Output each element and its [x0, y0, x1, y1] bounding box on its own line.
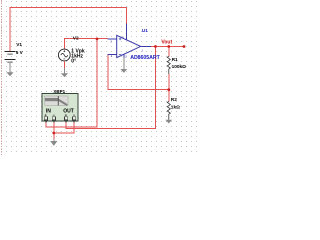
battery V1 [4, 52, 15, 63]
screen [45, 96, 68, 106]
U1 label [142, 28, 148, 34]
wire IN+ riser [46, 39, 97, 127]
svg-text:Vout: Vout [161, 40, 172, 46]
wire IN- to ground [53, 122, 55, 139]
R2 label [171, 97, 180, 110]
ground under XBP1 [50, 139, 57, 146]
net label Vout [161, 40, 172, 46]
wire top rail V1 to opamp V+ [10, 8, 127, 52]
svg-text:100kΩ: 100kΩ [172, 64, 187, 70]
node junction dot output-feedback riser [154, 45, 157, 48]
pin V+ [126, 24, 128, 40]
svg-text:U1: U1 [142, 28, 148, 34]
ground under V2 [61, 61, 68, 77]
XBP1 label [53, 89, 65, 94]
svg-text:R1: R1 [172, 57, 178, 63]
U1 part label AD8605ART [130, 55, 160, 61]
resistor R1 [167, 56, 170, 74]
pin number 2 [125, 54, 127, 58]
pin out [141, 46, 152, 48]
node junction dot wire end Vout [183, 45, 186, 48]
sheet border (left dashed) [1, 0, 3, 155]
wire R1 bottom lead [168, 74, 170, 90]
node junction dot R1 tap [167, 45, 170, 48]
node junction dot ground join [52, 132, 55, 135]
pin +in [108, 38, 117, 40]
svg-text:R2: R2 [171, 97, 177, 103]
svg-text:5 V: 5 V [16, 50, 24, 56]
V2 values [71, 49, 85, 65]
node junction dot +input [96, 38, 99, 41]
plus marker [119, 38, 122, 40]
pin number 5 [122, 36, 124, 40]
wire OUT- to IN- ground [54, 122, 74, 133]
svg-text:1kΩ: 1kΩ [171, 104, 180, 110]
pin V- [123, 55, 125, 58]
terminal polarity marks [45, 114, 75, 116]
svg-text:OUT: OUT [63, 108, 74, 114]
bode plotter XBP1 [42, 94, 78, 123]
V2 label [73, 35, 79, 41]
IN OUT labels [46, 108, 74, 114]
ground under V1 [6, 63, 13, 76]
svg-text:AD8605ART: AD8605ART [130, 55, 160, 61]
pin -in [108, 54, 117, 56]
ground under op-amp [120, 58, 127, 73]
svg-text:XBP1: XBP1 [53, 89, 65, 94]
ac source V2 [58, 49, 70, 61]
pin number 1 [141, 48, 143, 52]
svg-text:V1: V1 [16, 42, 22, 48]
pin stubs [46, 121, 74, 123]
pin number 4 [111, 54, 113, 58]
R1 label [172, 57, 187, 70]
svg-text:V2: V2 [73, 35, 79, 41]
wire OUT+ to output [66, 47, 156, 129]
node junction dot R1-R2 feedback [167, 88, 170, 91]
svg-text:IN: IN [46, 108, 51, 114]
wire output [151, 46, 184, 48]
wire V2 to opamp +input [65, 39, 108, 50]
pin number 3 [110, 39, 112, 43]
wire R2 top lead [168, 90, 170, 102]
V1 label [16, 42, 24, 56]
svg-text:0°: 0° [71, 59, 76, 65]
terminals [44, 117, 75, 120]
wire R1 top lead [168, 47, 170, 57]
ground under R2 [165, 120, 172, 124]
resistor R2 [167, 101, 170, 119]
minus marker [119, 54, 122, 56]
wire feedback [108, 55, 169, 90]
op-amp U1 [108, 24, 151, 59]
